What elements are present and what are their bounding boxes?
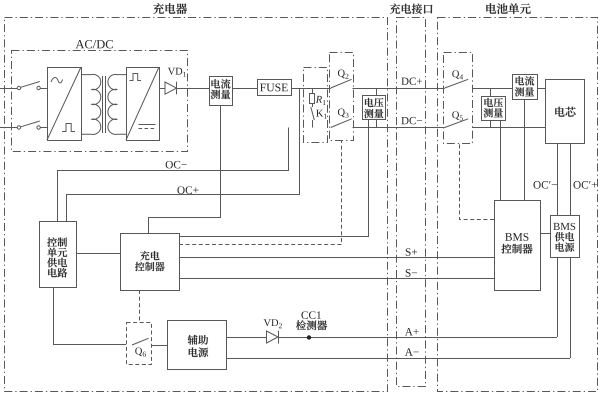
label A+	[405, 328, 413, 335]
switch S-in-bottom	[17, 121, 40, 129]
wire OC+ feedback	[67, 89, 300, 222]
current measurement box (charger) 电流测量	[210, 77, 233, 106]
wire ctrl-bottom-run	[54, 287, 127, 345]
label K1	[316, 110, 323, 117]
label VD1	[168, 68, 175, 75]
label R1	[316, 96, 322, 103]
relay contact K1	[311, 107, 315, 120]
switch enclosure Q6 (dashed)	[127, 323, 152, 365]
wire S+ line	[179, 257, 494, 259]
wire imeter-sense-run	[149, 106, 221, 234]
label VD2	[264, 319, 271, 326]
wire Q5-out	[472, 127, 545, 129]
battery cell box 电芯	[546, 80, 585, 144]
wire A- riser	[570, 258, 572, 359]
label OC'-	[533, 181, 540, 189]
label OC-	[166, 161, 173, 169]
wire A+ riser	[557, 258, 559, 338]
label S+	[406, 248, 411, 256]
wire bat-vmeter-sense	[500, 121, 502, 201]
battery unit enclosure (dash-dot)	[438, 18, 598, 392]
label Q4	[452, 70, 459, 79]
resistor R1	[310, 94, 315, 104]
wire bat-vmeter-bottom-stub	[490, 121, 492, 128]
label DC+	[401, 78, 408, 85]
current measurement box (battery) 电流测量	[513, 75, 538, 100]
wire OC- feedback	[58, 128, 289, 222]
label OC+	[177, 186, 184, 194]
contactor Q3	[331, 119, 352, 128]
wire top-sw-out	[40, 88, 47, 90]
wire vmeter-top-stub	[376, 88, 378, 96]
diode VD1	[165, 82, 177, 95]
wire A+ line	[279, 337, 557, 339]
charging interface enclosure (dash-dot)	[397, 18, 426, 387]
AC/DC converter enclosure (dash-dot)	[12, 51, 188, 152]
wire U2-to-VD1	[159, 88, 165, 90]
wire Q4-out	[472, 88, 512, 90]
wire vmeter-bottom-stub	[376, 119, 378, 128]
wire imeter-to-cell	[537, 88, 545, 90]
wire gate-Q2Q3 (dashed)	[179, 141, 342, 245]
wire L-in-bottom	[0, 127, 17, 129]
wire aux-to-VD2	[226, 337, 267, 339]
wire cell-OCminus	[557, 144, 559, 216]
transformer T1	[82, 74, 127, 134]
label: charger 充电器	[153, 3, 164, 14]
switch Q6	[132, 338, 149, 345]
contactor Q2	[331, 79, 352, 88]
wire R1-top-stub	[312, 88, 314, 93]
voltage measurement box (battery) 电压测量	[482, 97, 506, 121]
wire S- line	[179, 278, 494, 280]
label CC1 detector	[301, 311, 307, 319]
BMS supply box BMS供电电源	[551, 216, 580, 258]
wire vmeter-sense	[179, 119, 369, 237]
pre-charge enclosure (dash-dot)	[304, 68, 328, 143]
label: charging interface 充电接口	[390, 4, 400, 14]
label: AC/DC	[76, 40, 85, 48]
contactor enclosure Q4/Q5 (dash-dot)	[444, 53, 473, 144]
node CC1 junction	[307, 335, 311, 339]
BMS controller box BMS控制器	[495, 201, 541, 291]
wire L-in-top	[0, 88, 17, 90]
wire gate-Q4Q5 (dashed)	[460, 144, 495, 220]
wire bottom-sw-out	[40, 127, 47, 129]
contactor enclosure Q2/Q3 (dash-dot)	[330, 53, 354, 141]
wire DC+ rail	[353, 88, 445, 90]
voltage measurement box (charger) 电压测量	[363, 96, 386, 120]
fuse FUSE	[258, 80, 292, 96]
auxiliary power box 辅助电源	[168, 321, 227, 370]
converter U2 (DC-DC)	[126, 67, 160, 141]
label DC-	[401, 117, 408, 124]
diode VD2	[267, 331, 279, 344]
wire FUSE-to-Q2	[291, 88, 331, 90]
contactor Q4	[445, 79, 469, 88]
wire bat-imeter-sense	[524, 99, 526, 200]
switch S-in-top	[17, 82, 40, 90]
wire ctrl-to-charger-controller	[77, 253, 121, 255]
label Q3	[338, 109, 345, 118]
label Q2	[338, 70, 345, 79]
label S-	[406, 269, 411, 277]
label Q6	[135, 347, 142, 356]
label: battery unit 电池单元	[486, 3, 496, 13]
contactor Q5	[445, 119, 469, 128]
label OC'+	[573, 181, 580, 189]
wire currentmeter-to-FUSE	[232, 88, 257, 90]
control unit supply box 控制单元供电电路	[40, 222, 77, 288]
converter U1 (AC-DC bridge)	[47, 67, 82, 141]
wire K1-bottom-stub	[312, 120, 314, 128]
label Q5	[452, 111, 459, 120]
charger enclosure (dash-dot)	[5, 18, 388, 392]
wire gate-Q6 (dashed)	[139, 290, 141, 322]
wire R1-K1	[312, 104, 314, 108]
wire Q6-to-aux	[151, 345, 167, 347]
label A-	[405, 348, 413, 355]
wire A- line	[226, 358, 570, 360]
charging controller box 充电控制器	[121, 234, 180, 291]
wire bat-vmeter-top-stub	[490, 88, 492, 97]
wire VD1-to-currentmeter	[176, 88, 209, 90]
wire cell-OCplus	[570, 144, 572, 216]
wire DC- rail	[353, 127, 445, 129]
wire BMS-to-supply	[540, 233, 550, 235]
